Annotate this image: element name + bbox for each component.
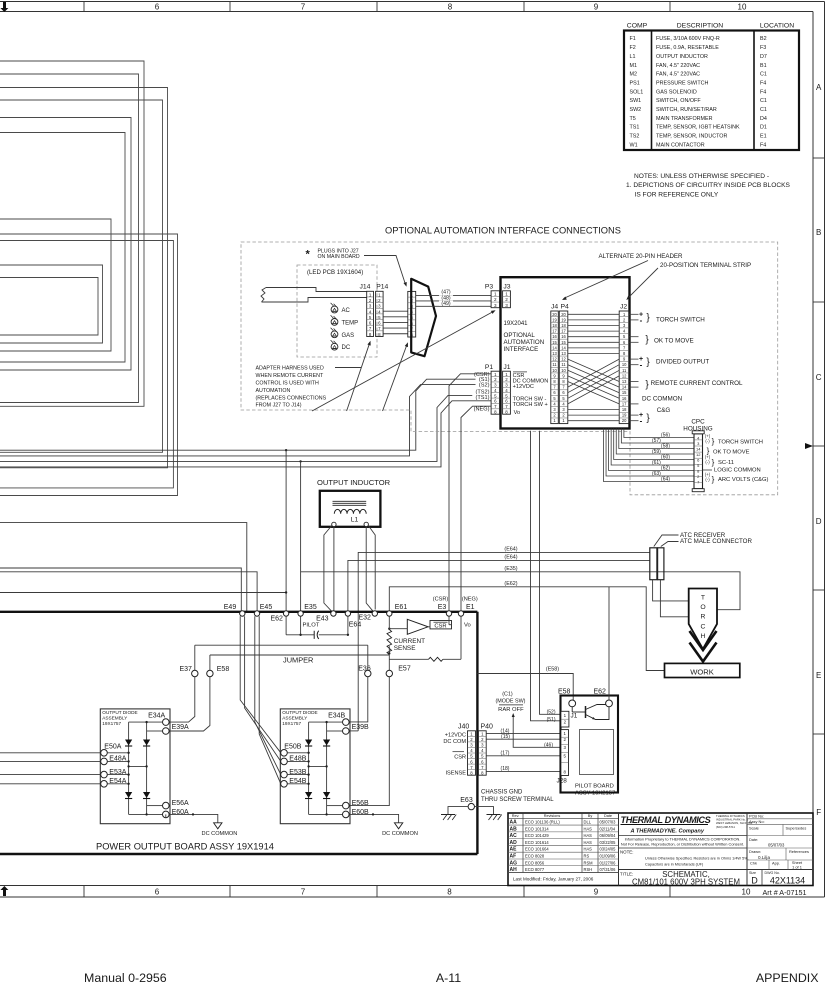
svg-text:11: 11: [561, 362, 566, 367]
svg-text:Drawn:: Drawn:: [749, 849, 761, 854]
svg-text:J2: J2: [620, 303, 627, 310]
svg-text:10: 10: [742, 888, 751, 897]
svg-text:M1: M1: [630, 63, 638, 69]
jumper wire E58 to E57: [210, 654, 389, 656]
svg-text:E57: E57: [398, 666, 411, 673]
wires L1 right terminal to node E32: [366, 527, 373, 611]
svg-text:Assy No:: Assy No:: [749, 819, 765, 824]
svg-text:TS1: TS1: [630, 125, 640, 131]
svg-text:J1: J1: [571, 712, 578, 719]
svg-text:20-POSITION TERMINAL STRIP: 20-POSITION TERMINAL STRIP: [660, 262, 751, 269]
bus node circles: [240, 611, 245, 616]
title block right column: [747, 818, 813, 820]
svg-text:RSM: RSM: [584, 860, 594, 865]
svg-text:J14: J14: [360, 284, 371, 291]
svg-text:(56): (56): [661, 433, 670, 439]
svg-text:E34A: E34A: [148, 712, 165, 719]
wires P14 to adapter plug pins 4-8: [383, 310, 408, 312]
svg-text:App.: App.: [772, 861, 780, 866]
svg-text:19: 19: [561, 317, 566, 322]
svg-text:15: 15: [552, 340, 557, 345]
svg-text:THRU SCREW TERMINAL: THRU SCREW TERMINAL: [481, 797, 554, 803]
svg-text:OK TO MOVE: OK TO MOVE: [713, 449, 750, 455]
svg-text:C: C: [816, 373, 822, 382]
svg-text:WORK: WORK: [690, 667, 714, 676]
J2 right side stubs and signal labels: [629, 313, 638, 315]
svg-text:E39A: E39A: [172, 724, 189, 731]
svg-text:L1: L1: [630, 54, 636, 60]
svg-text:3: 3: [505, 303, 508, 308]
svg-text:HAS: HAS: [584, 826, 593, 831]
svg-text:17: 17: [561, 329, 566, 334]
svg-text:CSR: CSR: [434, 623, 446, 629]
svg-text:D: D: [816, 517, 822, 526]
sheet border frame: [0, 1, 825, 3]
svg-text:E45: E45: [260, 604, 273, 611]
svg-text:ECO 101314: ECO 101314: [525, 826, 549, 831]
wire TS2 net from P1 pin 5 to left edge with branch to E35: [0, 395, 491, 461]
svg-text:REMOTE CURRENT CONTROL: REMOTE CURRENT CONTROL: [651, 380, 743, 387]
wire from left edge to node E45: [0, 572, 257, 611]
svg-text:ASSEMBLY: ASSEMBLY: [102, 715, 128, 720]
jumper wire E37 to E36: [195, 644, 368, 646]
svg-text:E1: E1: [760, 134, 767, 140]
crossover wires between P4 and J2: [568, 313, 619, 315]
svg-text:20: 20: [552, 312, 557, 317]
dashed box LED PCB 19X1604: [297, 265, 377, 357]
svg-text:OUTPUT DIODE: OUTPUT DIODE: [102, 710, 137, 715]
svg-text:ADAPTER HARNESS USED: ADAPTER HARNESS USED: [256, 366, 324, 372]
svg-text:17: 17: [552, 329, 557, 334]
svg-text:LOCATION: LOCATION: [760, 23, 794, 30]
svg-text:TORCH SW +: TORCH SW +: [513, 402, 548, 408]
svg-text:D1: D1: [760, 125, 767, 131]
svg-text:Capacitors are in Microfarads: Capacitors are in Microfarads (UF): [645, 862, 704, 866]
svg-text:P3: P3: [485, 283, 494, 290]
svg-text:SWITCH, RUN/SET/RAR: SWITCH, RUN/SET/RAR: [656, 107, 717, 113]
svg-text:CM81/101 600V 3PH SYSTEM: CM81/101 600V 3PH SYSTEM: [632, 878, 740, 887]
svg-text:ISENSE: ISENSE: [445, 771, 466, 777]
svg-text:E61: E61: [395, 604, 408, 611]
svg-text:+12VDC: +12VDC: [513, 384, 534, 390]
svg-text:}: }: [712, 458, 715, 467]
svg-text:ECO 8077: ECO 8077: [525, 867, 545, 872]
wire 15 from P40 pin2 to J28 pin 2: [486, 738, 561, 740]
svg-text:AUTOMATION: AUTOMATION: [504, 339, 545, 346]
svg-text:PRESSURE SWITCH: PRESSURE SWITCH: [656, 80, 709, 86]
pilot transistor: [571, 707, 573, 712]
svg-text:ECO 101136 (RLL): ECO 101136 (RLL): [525, 820, 560, 825]
svg-text:RS: RS: [584, 854, 590, 859]
DC COMMON ground symbol B: [349, 814, 398, 822]
wire 18 from P40 pin8 to J28 pin 8: [486, 770, 561, 772]
svg-text:ECO 101429: ECO 101429: [525, 833, 549, 838]
svg-text:P1: P1: [485, 364, 494, 371]
chassis ground symbol right: [475, 807, 494, 815]
svg-text:DLL: DLL: [584, 820, 592, 825]
wire pilot E62 up to E62 net: [608, 587, 610, 700]
svg-text:AB: AB: [510, 826, 518, 832]
svg-text:Last Modified: Friday, Januar: Last Modified: Friday, January 27, 2006: [513, 877, 594, 882]
svg-text:1. DEPICTIONS OF CIRCUITRY INS: 1. DEPICTIONS OF CIRCUITRY INSIDE PCB BL…: [626, 182, 791, 189]
svg-text:IS FOR REFERENCE ONLY: IS FOR REFERENCE ONLY: [635, 191, 719, 198]
svg-text:APPENDIX: APPENDIX: [756, 971, 819, 985]
wires node E45 pair down to E53B E54B: [255, 616, 281, 774]
svg-text:Supersedes: Supersedes: [786, 826, 807, 831]
svg-text:SOL1: SOL1: [630, 89, 644, 95]
svg-text:Unless Otherwise Specified, Re: Unless Otherwise Specified, Resistors ar…: [645, 856, 749, 860]
svg-text:CURRENT: CURRENT: [394, 638, 425, 645]
svg-text:E34B: E34B: [328, 712, 345, 719]
svg-text:ECO 8056: ECO 8056: [525, 860, 545, 865]
leader lines from adapter note: [335, 367, 361, 369]
svg-text:DC COM: DC COM: [443, 739, 466, 745]
wires L1 left terminal to node E43: [333, 527, 335, 611]
svg-text:Date: Date: [604, 814, 612, 818]
svg-text:C&G: C&G: [657, 407, 671, 414]
svg-text:DC COMMON: DC COMMON: [642, 396, 683, 403]
wires node E49 pair down to E50B E48B: [240, 616, 281, 753]
svg-text:ON MAIN BOARD: ON MAIN BOARD: [318, 254, 360, 260]
svg-text:(46): (46): [544, 742, 553, 748]
size and dwg no: [746, 813, 748, 886]
svg-text:(E64): (E64): [504, 554, 517, 560]
svg-text:(TS1): (TS1): [476, 395, 490, 401]
svg-text:(62): (62): [661, 466, 670, 472]
svg-text:FUSE, 0.9A, RESETABLE: FUSE, 0.9A, RESETABLE: [656, 45, 719, 51]
svg-text:+12VDC: +12VDC: [445, 732, 466, 738]
wire E36 to E34B: [349, 677, 368, 722]
svg-text:Size: Size: [749, 871, 756, 875]
svg-text:19X1757: 19X1757: [282, 721, 301, 726]
svg-text:E1: E1: [466, 604, 475, 611]
CSR box: [430, 621, 452, 629]
svg-text:0.Lilja: 0.Lilja: [758, 855, 770, 860]
svg-text:SC-11: SC-11: [718, 460, 734, 466]
svg-text:8: 8: [448, 2, 453, 11]
svg-text:06/09/04: 06/09/04: [600, 833, 617, 838]
svg-text:13: 13: [561, 351, 566, 356]
svg-text:7: 7: [301, 2, 306, 11]
svg-text:CHASSIS GND: CHASSIS GND: [481, 790, 523, 796]
wire E58 net from power board to pilot: [477, 674, 573, 701]
svg-text:(64): (64): [661, 477, 670, 483]
svg-text:W1: W1: [630, 142, 638, 148]
svg-text:GAS: GAS: [342, 333, 355, 339]
svg-text:F1: F1: [630, 36, 636, 42]
optional automation interface board box 19X2041: [501, 277, 630, 428]
svg-text:9: 9: [594, 2, 599, 11]
connector J28: [561, 730, 569, 776]
svg-text:C: C: [701, 623, 706, 630]
svg-text:AF: AF: [510, 854, 517, 860]
svg-text:1: 1: [505, 292, 508, 297]
svg-text:13: 13: [552, 351, 557, 356]
svg-text:FAN, 4.5" 220VAC: FAN, 4.5" 220VAC: [656, 63, 700, 69]
CPC housing drop wires 56-64: [624, 429, 694, 438]
svg-text:J3: J3: [503, 283, 510, 290]
svg-text:R: R: [701, 614, 706, 621]
wire TS1 net from P1 pin 6 to left edge: [0, 401, 491, 467]
svg-text:TORCH SWITCH: TORCH SWITCH: [656, 317, 705, 324]
svg-text:P40: P40: [481, 724, 494, 731]
svg-text:AA: AA: [510, 820, 518, 826]
wire from left edge to node E62: [0, 592, 286, 594]
svg-text:11: 11: [622, 368, 627, 373]
svg-text:05/07/03: 05/07/03: [600, 820, 617, 825]
svg-text:15: 15: [561, 340, 566, 345]
wire 14 from P40 pin1 to J28 pin 1: [486, 733, 561, 735]
svg-text:E62: E62: [270, 616, 283, 623]
svg-text:Vo: Vo: [464, 623, 471, 629]
wire E57 to E56B: [349, 677, 389, 806]
J1 right signal labels inside board: [513, 371, 527, 373]
svg-text:20: 20: [561, 312, 566, 317]
diodes B: [305, 740, 312, 746]
diodes A: [125, 740, 132, 746]
svg-text:-: -: [640, 417, 643, 426]
svg-text:ATC MALE CONNECTOR: ATC MALE CONNECTOR: [680, 538, 752, 545]
svg-text:19X1757: 19X1757: [102, 721, 121, 726]
svg-text:Rev.: Rev.: [512, 814, 520, 818]
svg-text:E50B: E50B: [284, 744, 301, 751]
current sense resistor: [388, 616, 390, 629]
svg-text:17: 17: [622, 401, 627, 406]
svg-text:9: 9: [594, 888, 599, 897]
svg-text:14: 14: [552, 345, 557, 350]
svg-text:J1: J1: [503, 364, 510, 371]
svg-text:SW1: SW1: [630, 98, 642, 104]
svg-text:F4: F4: [760, 142, 766, 148]
svg-text:AUTOMATION: AUTOMATION: [256, 388, 291, 394]
svg-text:TITLE:: TITLE:: [620, 871, 633, 876]
svg-text:01/09/06: 01/09/06: [600, 854, 617, 859]
svg-text:DWG No.: DWG No.: [765, 871, 780, 875]
wire E37 to E34A: [169, 677, 195, 722]
svg-text:OUTPUT DIODE: OUTPUT DIODE: [282, 710, 317, 715]
svg-text:HAS: HAS: [584, 833, 593, 838]
svg-text:DESCRIPTION: DESCRIPTION: [677, 23, 724, 30]
svg-text:CSR: CSR: [454, 754, 466, 760]
output diode assembly 19X1757 box B: [280, 709, 350, 824]
svg-text:AG: AG: [510, 860, 518, 866]
svg-text:By: By: [588, 814, 593, 818]
svg-text:PCB No:: PCB No:: [749, 813, 764, 818]
svg-text:OPTIONAL AUTOMATION INTERFACE: OPTIONAL AUTOMATION INTERFACE CONNECTION…: [385, 226, 621, 236]
bottom ruler band ticks and numbers: [83, 886, 85, 898]
op-amp current sense amplifier: [407, 619, 428, 634]
svg-text:SENSE: SENSE: [394, 645, 416, 652]
svg-text:DC: DC: [342, 345, 351, 351]
svg-text:(57): (57): [652, 438, 661, 444]
svg-text:RAR OFF: RAR OFF: [498, 707, 524, 713]
diode bridge wiring B: [308, 722, 310, 814]
L1 terminals: [332, 522, 336, 526]
svg-text:TEMP, SENSOR, IGBT HEATSINK: TEMP, SENSOR, IGBT HEATSINK: [656, 125, 740, 131]
svg-text:12: 12: [696, 452, 701, 457]
power output board top bus line: [0, 611, 477, 613]
svg-text:ASSEMBLY: ASSEMBLY: [282, 715, 308, 720]
svg-text:(LED PCB 19X1604): (LED PCB 19X1604): [307, 269, 363, 276]
svg-text:B1: B1: [760, 63, 767, 69]
svg-text:(60): (60): [661, 455, 670, 461]
svg-text:10: 10: [622, 362, 627, 367]
svg-text:PS1: PS1: [630, 80, 640, 86]
svg-text:12: 12: [552, 357, 557, 362]
title block outline: [508, 813, 813, 886]
svg-text:AC: AC: [510, 833, 518, 839]
svg-text:FUSE, 3/10A 600V FNQ-R: FUSE, 3/10A 600V FNQ-R: [656, 36, 720, 42]
svg-text:14: 14: [622, 385, 627, 390]
svg-text:HAS: HAS: [584, 840, 593, 845]
svg-text:E56A: E56A: [172, 800, 189, 807]
svg-text:6: 6: [155, 2, 160, 11]
svg-text:8: 8: [447, 888, 452, 897]
svg-text:JUMPER: JUMPER: [283, 656, 313, 665]
svg-text:(C1): (C1): [502, 691, 513, 697]
wire E39B up to E64 line: [346, 730, 359, 732]
svg-text:F4: F4: [760, 80, 766, 86]
svg-text:A THERMADYNE. Company: A THERMADYNE. Company: [630, 829, 705, 835]
svg-text:T: T: [701, 595, 705, 602]
svg-text:ECO 101614: ECO 101614: [525, 840, 549, 845]
svg-text:TEMP: TEMP: [342, 320, 359, 326]
svg-text:ASSY 19X2157: ASSY 19X2157: [575, 790, 615, 796]
svg-text:AH: AH: [510, 867, 518, 873]
svg-text:E37: E37: [179, 666, 192, 673]
svg-text:F3: F3: [760, 45, 766, 51]
inductor core lines: [333, 500, 367, 502]
svg-text:HAS: HAS: [584, 847, 593, 852]
torch symbol: [689, 589, 717, 650]
svg-text:J4: J4: [551, 303, 558, 310]
svg-text:(52): (52): [547, 709, 556, 715]
svg-text:Vo: Vo: [514, 410, 521, 416]
svg-text:E50A: E50A: [104, 744, 121, 751]
svg-text:Revisions: Revisions: [544, 814, 561, 818]
svg-text:COMP: COMP: [627, 23, 648, 30]
svg-text:NOTE:: NOTE:: [620, 849, 633, 854]
svg-text:19: 19: [622, 413, 627, 418]
svg-text:AE: AE: [510, 847, 518, 853]
svg-text:D: D: [751, 875, 758, 885]
wire NEG from P1 pin 7 to node E1: [461, 406, 491, 611]
wire E35 to torch: [301, 572, 740, 610]
svg-text:F4: F4: [760, 89, 766, 95]
svg-text:F: F: [816, 808, 821, 817]
svg-text:12: 12: [622, 373, 627, 378]
power output board bottom edge: [0, 853, 477, 855]
wire 51 from automation down to pilot J1 pin 2: [531, 431, 561, 721]
svg-text:(18): (18): [501, 766, 510, 772]
svg-text:2: 2: [505, 297, 508, 302]
svg-text:7: 7: [301, 888, 306, 897]
svg-text:E56B: E56B: [352, 800, 369, 807]
svg-text:11: 11: [552, 362, 557, 367]
power output board right edge: [476, 612, 478, 854]
svg-text:16: 16: [552, 334, 557, 339]
chassis ground symbol left: [448, 807, 468, 815]
revision table: [618, 813, 620, 886]
svg-text:(63): (63): [652, 471, 661, 477]
svg-text:19: 19: [552, 317, 557, 322]
svg-text:H: H: [701, 633, 706, 640]
top ruler band ticks and numbers: [83, 2, 85, 12]
svg-text:FROM J27 TO J14): FROM J27 TO J14): [256, 403, 302, 409]
svg-text:E32: E32: [358, 614, 371, 621]
svg-text:THERMAL DYNAMICS: THERMAL DYNAMICS: [621, 815, 712, 825]
svg-text:E49: E49: [224, 604, 237, 611]
svg-text:B: B: [816, 228, 821, 237]
svg-text:OUTPUT INDUCTOR: OUTPUT INDUCTOR: [656, 54, 708, 60]
svg-text:C1: C1: [760, 72, 767, 78]
svg-text:03/24/05: 03/24/05: [600, 847, 617, 852]
right edge zone letters A-F: [813, 157, 825, 159]
svg-text:TEMP, SENSOR, INDUCTOR: TEMP, SENSOR, INDUCTOR: [656, 134, 727, 140]
svg-text:E39B: E39B: [352, 724, 369, 731]
svg-text:(E35): (E35): [504, 566, 517, 572]
svg-text:10: 10: [552, 368, 557, 373]
work lead box: [665, 663, 740, 677]
svg-text:(REPLACES CONNECTIONS: (REPLACES CONNECTIONS: [256, 395, 327, 401]
svg-text:ALTERNATE 20-PIN HEADER: ALTERNATE 20-PIN HEADER: [599, 253, 684, 260]
svg-text:-: -: [640, 316, 643, 325]
svg-text:1: 1: [494, 292, 497, 297]
svg-text:F2: F2: [630, 45, 636, 51]
svg-text:18: 18: [552, 323, 557, 328]
svg-text:P14: P14: [376, 284, 388, 291]
wire hook to main board from J14 pins 1-3: [266, 288, 367, 292]
wires from left edge to E50A E48A E53A E54A: [0, 752, 101, 754]
pilot capacitor branch: [285, 616, 287, 635]
svg-text:(E64): (E64): [504, 546, 517, 552]
svg-text:J40: J40: [458, 724, 469, 731]
wire E62 net to work lead: [389, 587, 664, 671]
svg-text:18: 18: [622, 407, 627, 412]
svg-text:(-): (-): [705, 439, 710, 444]
svg-text:TORCH SWITCH: TORCH SWITCH: [718, 439, 763, 445]
DC COMMON ground symbol A: [165, 814, 167, 817]
svg-text:SWITCH, ON/OFF: SWITCH, ON/OFF: [656, 98, 701, 104]
svg-text:13: 13: [622, 379, 627, 384]
svg-text:19X2041: 19X2041: [504, 321, 529, 327]
svg-text:07/31/06: 07/31/06: [600, 867, 617, 872]
svg-text:1 of 1: 1 of 1: [792, 865, 802, 870]
svg-text:E35: E35: [304, 604, 317, 611]
svg-text:(CSR): (CSR): [433, 597, 449, 603]
svg-text:(15): (15): [501, 734, 510, 740]
svg-text:L1: L1: [351, 517, 359, 524]
wires ATC to torch: [653, 580, 689, 601]
svg-text:10: 10: [561, 368, 566, 373]
svg-text:03/22/05: 03/22/05: [600, 840, 617, 845]
wires P3 to adapter with labels 47 48 49: [416, 294, 491, 296]
svg-text:14: 14: [561, 345, 566, 350]
svg-text:E3: E3: [438, 604, 447, 611]
svg-text:J28: J28: [557, 777, 568, 784]
svg-text:(51): (51): [547, 717, 556, 723]
svg-text:(NEG): (NEG): [474, 406, 490, 412]
wire from left edge down to bus: [0, 523, 247, 611]
svg-text:A-11: A-11: [436, 971, 461, 985]
svg-text:Not For Release, Reproduction,: Not For Release, Reproduction, or Distri…: [621, 841, 744, 846]
svg-text:-: -: [640, 361, 643, 370]
svg-text:MAIN TRANSFORMER: MAIN TRANSFORMER: [656, 116, 713, 122]
svg-text:FAN, 4.5" 220VAC: FAN, 4.5" 220VAC: [656, 72, 700, 78]
wire from left edge to node E49: [0, 568, 241, 611]
svg-text:2: 2: [494, 297, 497, 302]
svg-text:*: *: [306, 249, 311, 261]
